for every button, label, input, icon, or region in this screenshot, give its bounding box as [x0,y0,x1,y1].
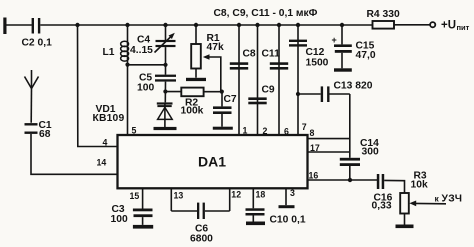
svg-text:47,0: 47,0 [356,50,376,61]
svg-text:+U: +U [441,20,456,32]
svg-text:C8, C9, C11 - 0,1 мкФ: C8, C9, C11 - 0,1 мкФ [214,8,318,19]
node C14/pin16 junction [348,178,352,182]
svg-text:6800: 6800 [190,234,213,245]
wire C16 to R3 [384,180,404,193]
+Upit terminal [430,20,470,33]
IC DA1 [118,135,308,188]
resistor R2 [181,88,223,117]
svg-text:12: 12 [231,190,241,200]
wire pin 8 [308,138,350,140]
svg-text:C2 0,1: C2 0,1 [22,38,53,49]
svg-text:+: + [332,35,337,45]
svg-text:0,33: 0,33 [372,201,392,212]
capacitor C7 [213,92,237,127]
diode VD1 varicap [93,102,173,127]
svg-text:7: 7 [302,122,307,132]
svg-text:C4: C4 [137,35,150,46]
ground C3 [133,225,153,229]
svg-text:C8: C8 [243,48,256,59]
resistor R4 [367,9,400,28]
resistor R1 (trimmer) [191,25,224,78]
svg-text:47k: 47k [207,42,224,53]
capacitor C14 [340,138,379,180]
svg-text:C13 820: C13 820 [334,81,373,92]
node bus junction dots [75,23,344,27]
wire antenna to pin 14 [31,134,118,174]
svg-text:C7: C7 [224,94,237,105]
svg-text:100: 100 [111,214,128,225]
svg-text:C11: C11 [262,48,281,59]
wire C2 node to pin 4 [78,25,118,147]
wire pin 16 [308,179,378,181]
capacitor C10 on pin 18 [246,188,306,225]
capacitor C8 on pin 1 [230,25,256,135]
wire L1 to C4 [128,64,166,66]
svg-text:18: 18 [256,189,266,199]
node R2/C7/wiper junction [220,90,224,94]
wire [7,24,32,26]
capacitor C1 [25,120,52,140]
wire pin 17 [308,151,350,153]
svg-text:13: 13 [174,191,184,201]
node line to C14 [349,94,351,158]
capacitor C6 between pins 13 and 12 [171,188,229,244]
svg-text:16: 16 [309,171,319,181]
inductor L1 [103,25,129,135]
svg-text:4..15: 4..15 [130,45,153,56]
svg-text:100k: 100k [181,106,204,117]
capacitor C16 [372,174,393,212]
ground R1 [186,78,206,81]
svg-text:DA1: DA1 [198,154,226,170]
resistor R3 (pot) [400,171,428,225]
antenna [25,70,39,123]
wire to R2 [165,91,181,93]
svg-text:300: 300 [362,146,379,157]
input terminal bar [3,18,6,35]
svg-text:C9: C9 [262,85,275,96]
svg-text:пит: пит [457,23,470,32]
svg-text:8: 8 [310,128,315,138]
node L1/C4 junction [125,63,129,67]
svg-text:10k: 10k [411,179,428,190]
capacitor C4 (trimmer) [130,25,176,75]
svg-text:1500: 1500 [306,58,329,69]
capacitor C2 [22,18,53,49]
capacitor C13 [298,81,373,103]
svg-text:C12: C12 [306,47,325,58]
wire top bus [40,24,372,26]
wire R3 wiper to AF out [409,194,462,207]
capacitor C12 on pin 7 [289,25,329,135]
svg-text:L1: L1 [103,47,115,58]
svg-text:100: 100 [137,83,154,94]
svg-text:КВ109: КВ109 [93,113,125,124]
svg-text:C10 0,1: C10 0,1 [270,215,306,226]
node C4 junction [163,63,167,67]
ground C10 [246,222,265,226]
svg-text:УЗЧ: УЗЧ [442,194,463,205]
capacitor C3 on pin 15 [111,188,153,225]
ground R3 [396,225,414,229]
svg-text:4: 4 [103,138,108,148]
ground C7 [213,127,233,130]
node C5/R2 junction [163,89,167,93]
capacitor C5 [137,73,176,103]
wire [394,24,430,26]
ground C15 [334,68,352,71]
svg-text:R4 330: R4 330 [367,9,400,20]
capacitor C15 [332,25,376,68]
svg-text:1: 1 [243,125,248,135]
svg-text:к: к [435,194,440,204]
node C12/C13 junction [296,92,300,96]
wire R1 wiper [203,54,221,91]
svg-text:68: 68 [39,129,51,140]
ground VD1 [154,127,177,130]
capacitor C11 on pin 6 [262,25,289,135]
ground pin 3 [279,188,295,208]
svg-text:15: 15 [130,191,140,201]
svg-text:14: 14 [97,158,107,168]
svg-text:3: 3 [290,188,295,198]
svg-text:17: 17 [310,143,320,153]
capacitor C9 on pin 2 [248,25,275,135]
